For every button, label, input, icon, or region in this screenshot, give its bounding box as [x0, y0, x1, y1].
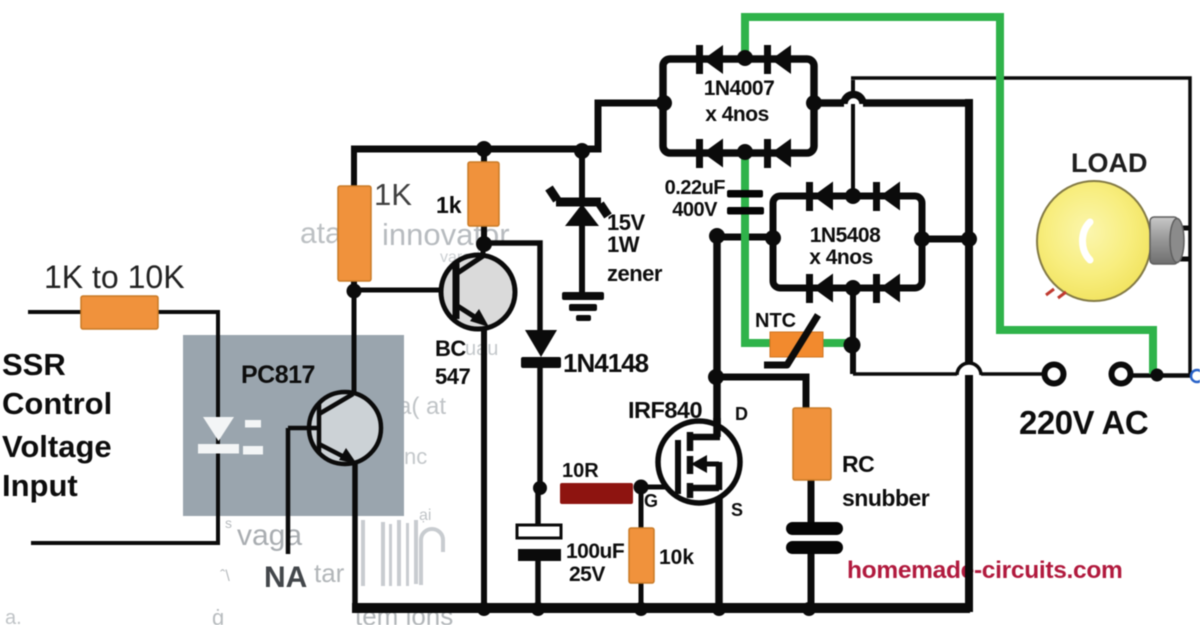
svg-text:zener: zener: [607, 261, 663, 286]
node: bridge B1 top junction: [737, 50, 753, 66]
diode D6 (B2 top-right): [873, 182, 900, 212]
svg-text:ġ: ġ: [212, 605, 224, 625]
node: BC547 collector node: [476, 236, 492, 252]
wire: collector node to 1N4148 anode: [481, 243, 540, 334]
wire: mains terminal 2 to node B: [1131, 373, 1190, 377]
svg-text:nc: nc: [404, 444, 427, 469]
optocoupler U1 phototransistor collector stroke: [319, 394, 353, 414]
node: bridge B1 left junction: [656, 95, 672, 111]
wire: 10k resistor R5 leads: [639, 487, 644, 610]
wire: PC817 collector to left rail: [352, 292, 357, 394]
svg-text:220V AC: 220V AC: [1019, 404, 1148, 441]
svg-text:G: G: [644, 491, 658, 511]
bridge rectifier B2 1N5408 x4 body: [773, 196, 922, 288]
resistor R1 1K-10K input (orange body): [81, 296, 158, 329]
node: BC547 base / R2 node: [347, 284, 362, 299]
red watermark strokes under bulb: [1046, 289, 1066, 298]
node: rail node below R5: [634, 602, 648, 616]
GREEN WIRES: [745, 17, 1153, 374]
wire: BC547 base wire from left rail node: [354, 288, 453, 293]
node: bridge B1 bottom junction: [737, 144, 753, 160]
MOSFET Q2 internal: channel segments: [687, 432, 694, 498]
lamp LOAD filament highlight: [1083, 222, 1091, 260]
wire: lamp holder stubs: [1176, 228, 1191, 259]
svg-text:tar: tar: [314, 558, 345, 588]
node: rail node below BC547: [477, 602, 491, 616]
svg-text:RC: RC: [842, 451, 874, 477]
node: right rail / B2 junction: [961, 231, 977, 247]
diode D8 (B2 bottom-right): [873, 274, 900, 304]
wire: RC snubber capacitor to bottom rail: [808, 553, 815, 610]
svg-text:Control: Control: [2, 386, 112, 421]
svg-text:NA: NA: [264, 561, 307, 594]
transistor Q1 emitter stroke with arrow: [456, 305, 481, 321]
diode D7 (B2 bottom-left): [806, 274, 833, 304]
svg-text:547: 547: [435, 364, 470, 389]
node: zener top node: [574, 143, 590, 159]
svg-text:ata: ata: [300, 217, 342, 250]
diode D2 (B1 top-right): [764, 45, 791, 74]
wire: left supply rail from top node down to base node: [351, 149, 357, 292]
wire: MOSFET gate lead from gate node: [641, 485, 676, 490]
wire: green AC line from bridge B1 top node to load loop and terminal node B: [745, 17, 1153, 374]
wire: zener top lead: [579, 149, 585, 200]
wire: bridge B1 right node to right rail with jump over: [814, 99, 844, 107]
node: gate drive node left: [533, 481, 547, 495]
node: bridge B2 bottom junction: [845, 280, 861, 296]
wire: PC817 emitter down to bottom rail: [352, 459, 358, 612]
wire: bottom ground rail: [352, 603, 970, 613]
MOSFET Q2 internal: gate bar: [675, 440, 681, 494]
mains terminal 1 (open circle): [1045, 365, 1064, 384]
node: NTC to node A junction: [844, 337, 861, 354]
wire: 1k resistor R3 top lead: [481, 149, 487, 166]
ground symbol (zener anode): [562, 292, 604, 321]
MOSFET Q2 drain lead inside body: [713, 418, 721, 437]
node: bridge B1 right junction: [806, 95, 822, 111]
wire: load loop top and right side to terminal node B: [851, 78, 1190, 376]
svg-text:homemade-circuits.com: homemade-circuits.com: [847, 557, 1123, 584]
svg-text:1K to 10K: 1K to 10K: [44, 259, 185, 295]
resistor R3 1k (orange vertical, BC547 collector): [468, 162, 499, 226]
diode D9 1N4148 symbol: [521, 330, 561, 368]
wire: PC817 LED cathode down to input return: [31, 420, 218, 543]
svg-text:LOAD: LOAD: [1071, 148, 1148, 178]
svg-text:x 4nos: x 4nos: [705, 103, 769, 126]
svg-text:x 4nos: x 4nos: [809, 246, 873, 269]
svg-text:ˆ\: ˆ\: [220, 568, 230, 585]
optocoupler U1 phototransistor base bar and base lead: [288, 403, 319, 554]
node: rail node below source: [712, 602, 726, 616]
MOSFET Q2 IRF840 body: [658, 421, 740, 503]
wire: MOSFET source to bottom rail: [715, 464, 723, 610]
lamp LOAD holder base: [1150, 217, 1178, 264]
svg-text:1N5408: 1N5408: [810, 224, 881, 247]
svg-text:1N4148: 1N4148: [563, 348, 649, 378]
capacitor C1 0.22uF/400V plates: [727, 190, 763, 198]
copyright mark (blue, right edge): [1191, 370, 1200, 382]
wire: node A to mains terminal 1: [853, 372, 957, 376]
mains terminal 2 (open circle): [1112, 365, 1131, 384]
wire: gate node through 100uF to bottom rail: [535, 492, 541, 610]
svg-text:D: D: [735, 404, 748, 424]
svg-text:10k: 10k: [659, 546, 694, 569]
svg-text:IRF840: IRF840: [628, 397, 702, 423]
node: bridge B2 left junction: [765, 230, 781, 246]
transistor Q1 BC547 body: [441, 255, 515, 329]
diode D4 (B1 bottom-right): [764, 139, 791, 169]
capacitor C2 100uF/25V plates: [517, 525, 561, 538]
wire: right rail down to bottom rail: [965, 99, 973, 612]
optocoupler U1 PC817 body: [183, 335, 404, 516]
MOSFET Q2 internal: body-diode arrow pointing left: [700, 462, 719, 467]
svg-text:Input: Input: [2, 468, 78, 503]
node: gate node G: [634, 480, 649, 495]
optocoupler U1 LED symbol (white): [198, 417, 263, 455]
svg-text:vaga: vaga: [237, 519, 302, 552]
MOSFET Q2 internal: source stub and link: [690, 462, 719, 490]
svg-text:25V: 25V: [569, 563, 605, 586]
svg-text:s: s: [225, 515, 232, 531]
svg-text:400V: 400V: [672, 199, 718, 221]
wire: bridge B2 bottom node down to AC node A: [850, 288, 856, 374]
svg-text:BC: BC: [435, 336, 466, 361]
svg-text:1K: 1K: [374, 177, 412, 212]
wire: zener bottom lead to ground: [579, 218, 585, 296]
svg-text:100uF: 100uF: [566, 540, 625, 563]
transistor Q1 collector stroke: [456, 244, 483, 274]
svg-text:0.22uF: 0.22uF: [665, 177, 726, 199]
optocoupler U1 phototransistor body: [309, 392, 381, 464]
wire: bridge B2 left node to DC+ node: [717, 234, 773, 241]
diode D3 (B1 bottom-left): [696, 139, 723, 169]
svg-text:ại: ại: [419, 507, 431, 524]
thermistor NTC1 strike line: [764, 315, 818, 365]
wire: green AC line from bridge B1 bottom node down to NTC and node A: [745, 151, 850, 343]
resistor R4 10R (dark red): [560, 483, 633, 504]
resistor R5 10k (orange vertical): [629, 528, 654, 583]
resistor R2 1K (orange vertical, on left rail): [338, 186, 371, 281]
wire: right rail segment drawn over site credit text: [965, 552, 973, 590]
svg-text:S: S: [731, 500, 743, 520]
svg-text:Voltage: Voltage: [2, 429, 112, 464]
svg-text:1k: 1k: [436, 192, 462, 218]
optocoupler U1 phototransistor emitter stroke with arrow: [319, 444, 348, 459]
zener diode Z1 15V 1W symbol: [549, 188, 608, 226]
wire jump: B1 output wire over vertical net at x=853: [844, 95, 863, 105]
svg-text:NTC: NTC: [755, 310, 796, 332]
svg-text:a.: a.: [5, 607, 22, 625]
node: bridge B2 right junction: [914, 231, 930, 247]
resistor R6 RC snubber (orange vertical): [793, 408, 831, 480]
wire: DC+ rail down to MOSFET drain: [713, 233, 721, 440]
node: drain node: [708, 369, 724, 385]
node: rail node below C2: [531, 602, 545, 616]
lamp LOAD bulb glass: [1037, 181, 1151, 301]
diode D1 (B1 top-left): [696, 45, 723, 74]
wire: bridge B2 top node up to load loop: [851, 80, 855, 196]
thermistor NTC1 body (orange): [770, 332, 823, 357]
svg-text:a( at: a( at: [398, 393, 446, 420]
diode D5 (B2 top-left): [806, 182, 833, 212]
svg-text:1W: 1W: [607, 232, 640, 257]
svg-text:10R: 10R: [562, 460, 599, 482]
svg-text:PC817: PC817: [241, 361, 315, 389]
WATERMARKS: [5, 217, 510, 625]
wire: BC547 emitter down to bottom rail: [481, 320, 487, 610]
capacitor C3 snubber plates: [786, 522, 843, 535]
node: DC+ node at C1: [709, 228, 725, 244]
MOSFET Q2 internal: drain stub: [688, 434, 720, 441]
svg-text:SSR: SSR: [2, 347, 66, 382]
transistor Q1 base bar: [453, 263, 460, 319]
wire: RC snubber resistor to capacitor: [808, 477, 815, 527]
bridge rectifier B1 1N4007 x4 body: [663, 59, 814, 153]
svg-text:1N4007: 1N4007: [704, 77, 775, 100]
svg-text:snubber: snubber: [842, 485, 930, 511]
node: rail node below snubber: [802, 602, 816, 616]
node: terminal node B: [1151, 369, 1164, 382]
wire: top rail from left rail corner to bridge B1 left node: [351, 103, 665, 149]
node: bridge B2 top junction: [845, 188, 861, 204]
wire: input top (SSR control + to R 1K-10K to PC817 LED anode): [28, 312, 218, 420]
wire: 1k resistor R3 bottom lead to collector node: [481, 224, 487, 246]
node: 1k top node: [476, 141, 492, 157]
wire: 1N4148 cathode down to gate node: [537, 368, 543, 490]
wire: drain node branch to RC snubber: [713, 377, 806, 412]
wire: bridge B2 right node to right rail: [922, 236, 969, 243]
wire jump: mains line over right rail at x=969: [957, 363, 981, 375]
